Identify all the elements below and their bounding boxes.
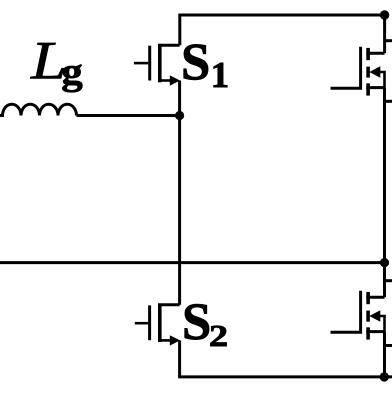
wire: Q1 source down to mid rail node [383, 88, 386, 263]
label S1 [184, 45, 227, 88]
inductor Lg [0, 104, 77, 115]
wire: mid node down to Q2 drain [383, 263, 386, 298]
wire: stub right of Q1 source [385, 100, 392, 103]
junction: bottom rail right node [380, 372, 389, 381]
wire: S1 source to input node to S2 drain [178, 81, 181, 305]
wire: stub right of Q1 drain [385, 39, 392, 42]
label Lg [30, 43, 82, 92]
wire: stub right below mid node [385, 279, 392, 282]
wire: Q2 source down to bottom rail [383, 332, 386, 377]
wire: mid rail (grid return) [0, 261, 385, 264]
junction: top right corner node [380, 10, 389, 19]
wire: stub right of Q2 source [385, 344, 392, 347]
transistor S2 [135, 304, 180, 346]
junction: mid rail right node [380, 258, 389, 267]
label S2 [185, 304, 227, 346]
wire: bottom rail [178, 375, 392, 378]
wire: S2 source to bottom rail [178, 340, 181, 377]
transistor S1 [134, 44, 180, 86]
wire: S1 drain up to top rail across to Q1 drain [180, 15, 385, 53]
transistor Q2 (bottom right MOSFET) [331, 291, 385, 340]
wire: inductor to input node [77, 114, 180, 117]
junction: inverter input node [175, 111, 184, 120]
transistor Q1 (top right MOSFET) [331, 47, 385, 96]
